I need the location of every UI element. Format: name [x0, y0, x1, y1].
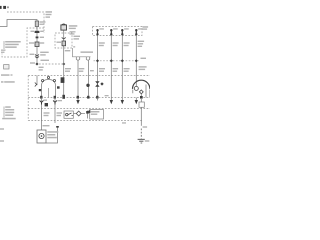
wire from battery — [63, 30, 65, 97]
bowtie splice on wire 1 — [95, 81, 99, 86]
pump circle — [134, 86, 138, 90]
motor box — [37, 130, 46, 143]
connector C1 marks — [35, 31, 40, 33]
label above dashed option wire — [41, 60, 50, 61]
bottom-left tiny texts — [0, 128, 4, 129]
ignition switch arch — [42, 80, 56, 98]
connector at y55 labels — [30, 54, 35, 55]
below node — [39, 67, 44, 68]
diamond component — [76, 111, 81, 116]
fuse panel dashed box top-right — [93, 27, 143, 36]
labels bottom right — [143, 126, 148, 127]
crossing marks on separator y97.5 — [62, 95, 65, 99]
wiper arm — [35, 83, 38, 87]
left text block 1 — [3, 41, 5, 49]
flag box — [139, 102, 144, 107]
node B splice — [62, 62, 65, 65]
connector diamonds — [96, 59, 99, 62]
wire labels y66-74 — [65, 68, 71, 69]
texts near switch bottom connectors — [44, 100, 48, 101]
battery labels — [69, 25, 78, 27]
connector labels wire1 — [31, 31, 35, 32]
above terminals — [81, 51, 94, 53]
relay box — [64, 111, 73, 118]
splice dot — [86, 84, 89, 87]
bottom-right ground wire — [140, 121, 142, 126]
motor circle — [39, 133, 44, 138]
fusebox-left labels — [74, 36, 81, 37]
connector dash-dot line — [94, 60, 140, 62]
dashed fuse box left — [55, 33, 72, 48]
tick — [56, 126, 59, 128]
right of dash-dot line — [141, 58, 147, 59]
wire battery feed left — [0, 20, 37, 27]
dashed separator 1 — [28, 75, 150, 77]
dashed boundary left edge — [27, 76, 29, 121]
switch pin right — [53, 80, 55, 82]
left note block — [3, 107, 5, 118]
arrows below separator — [76, 100, 79, 104]
motor loop wire — [42, 127, 58, 143]
wire labels y42-47 — [99, 42, 105, 43]
fuse 2 — [110, 29, 112, 36]
terminal cup 2 — [86, 57, 89, 60]
dark component on wire — [61, 77, 65, 83]
pin dot left — [39, 89, 41, 91]
fuse 1 — [96, 29, 98, 36]
fuse panel labels — [99, 28, 104, 29]
diamond marker — [100, 82, 103, 85]
dashed boundary inner box — [2, 28, 44, 57]
small component — [87, 111, 89, 119]
fuse 4 — [135, 29, 137, 36]
connector chevrons at y55 — [35, 55, 39, 59]
left texts — [1, 74, 10, 76]
fuse F2 — [35, 42, 39, 47]
bus from fusebox to terminals — [73, 48, 91, 57]
fuse 3 — [121, 29, 123, 36]
connector Y marks — [40, 101, 44, 105]
wire T2 down — [88, 61, 90, 98]
right of top dashed corner — [46, 11, 53, 13]
washer labels — [122, 122, 126, 123]
diamond — [139, 90, 143, 94]
fuse F1 — [35, 21, 38, 27]
dashed separator 4 — [28, 120, 142, 122]
wire — [36, 27, 38, 64]
fuse2 labels — [29, 42, 34, 43]
below left fusebox — [65, 50, 71, 51]
ground symbol — [138, 139, 145, 143]
labeled box — [90, 110, 104, 120]
battery terminal box — [62, 23, 65, 26]
connector chevrons — [62, 38, 66, 40]
node A splice — [35, 62, 38, 65]
title text top-left — [0, 6, 9, 9]
switch pin top — [47, 76, 49, 78]
dashed option wire — [39, 63, 62, 65]
washer pump arc — [133, 80, 150, 89]
terminal cup 1 — [76, 57, 79, 60]
switch wires below — [41, 98, 43, 131]
wire labels below y108 separators — [44, 112, 50, 113]
motor labels — [43, 125, 50, 126]
small text left — [1, 50, 6, 51]
left column small box — [4, 65, 9, 69]
dark OR blob — [45, 103, 48, 106]
dashed boundary top-left box — [7, 12, 44, 33]
inner leg — [48, 88, 50, 98]
connector C2 mark — [36, 37, 39, 39]
dashed separator 3 — [28, 108, 150, 110]
fuse panel tab — [143, 26, 149, 28]
wire T1 down — [77, 61, 79, 98]
tick near fusebox corner — [73, 46, 75, 47]
fuse wires down — [97, 36, 99, 98]
fuse F3 — [62, 41, 66, 46]
dashed separator 2 — [28, 97, 150, 99]
right of fuse F1 — [40, 21, 46, 22]
switch pin left — [42, 80, 44, 82]
pin dot right — [57, 86, 60, 88]
